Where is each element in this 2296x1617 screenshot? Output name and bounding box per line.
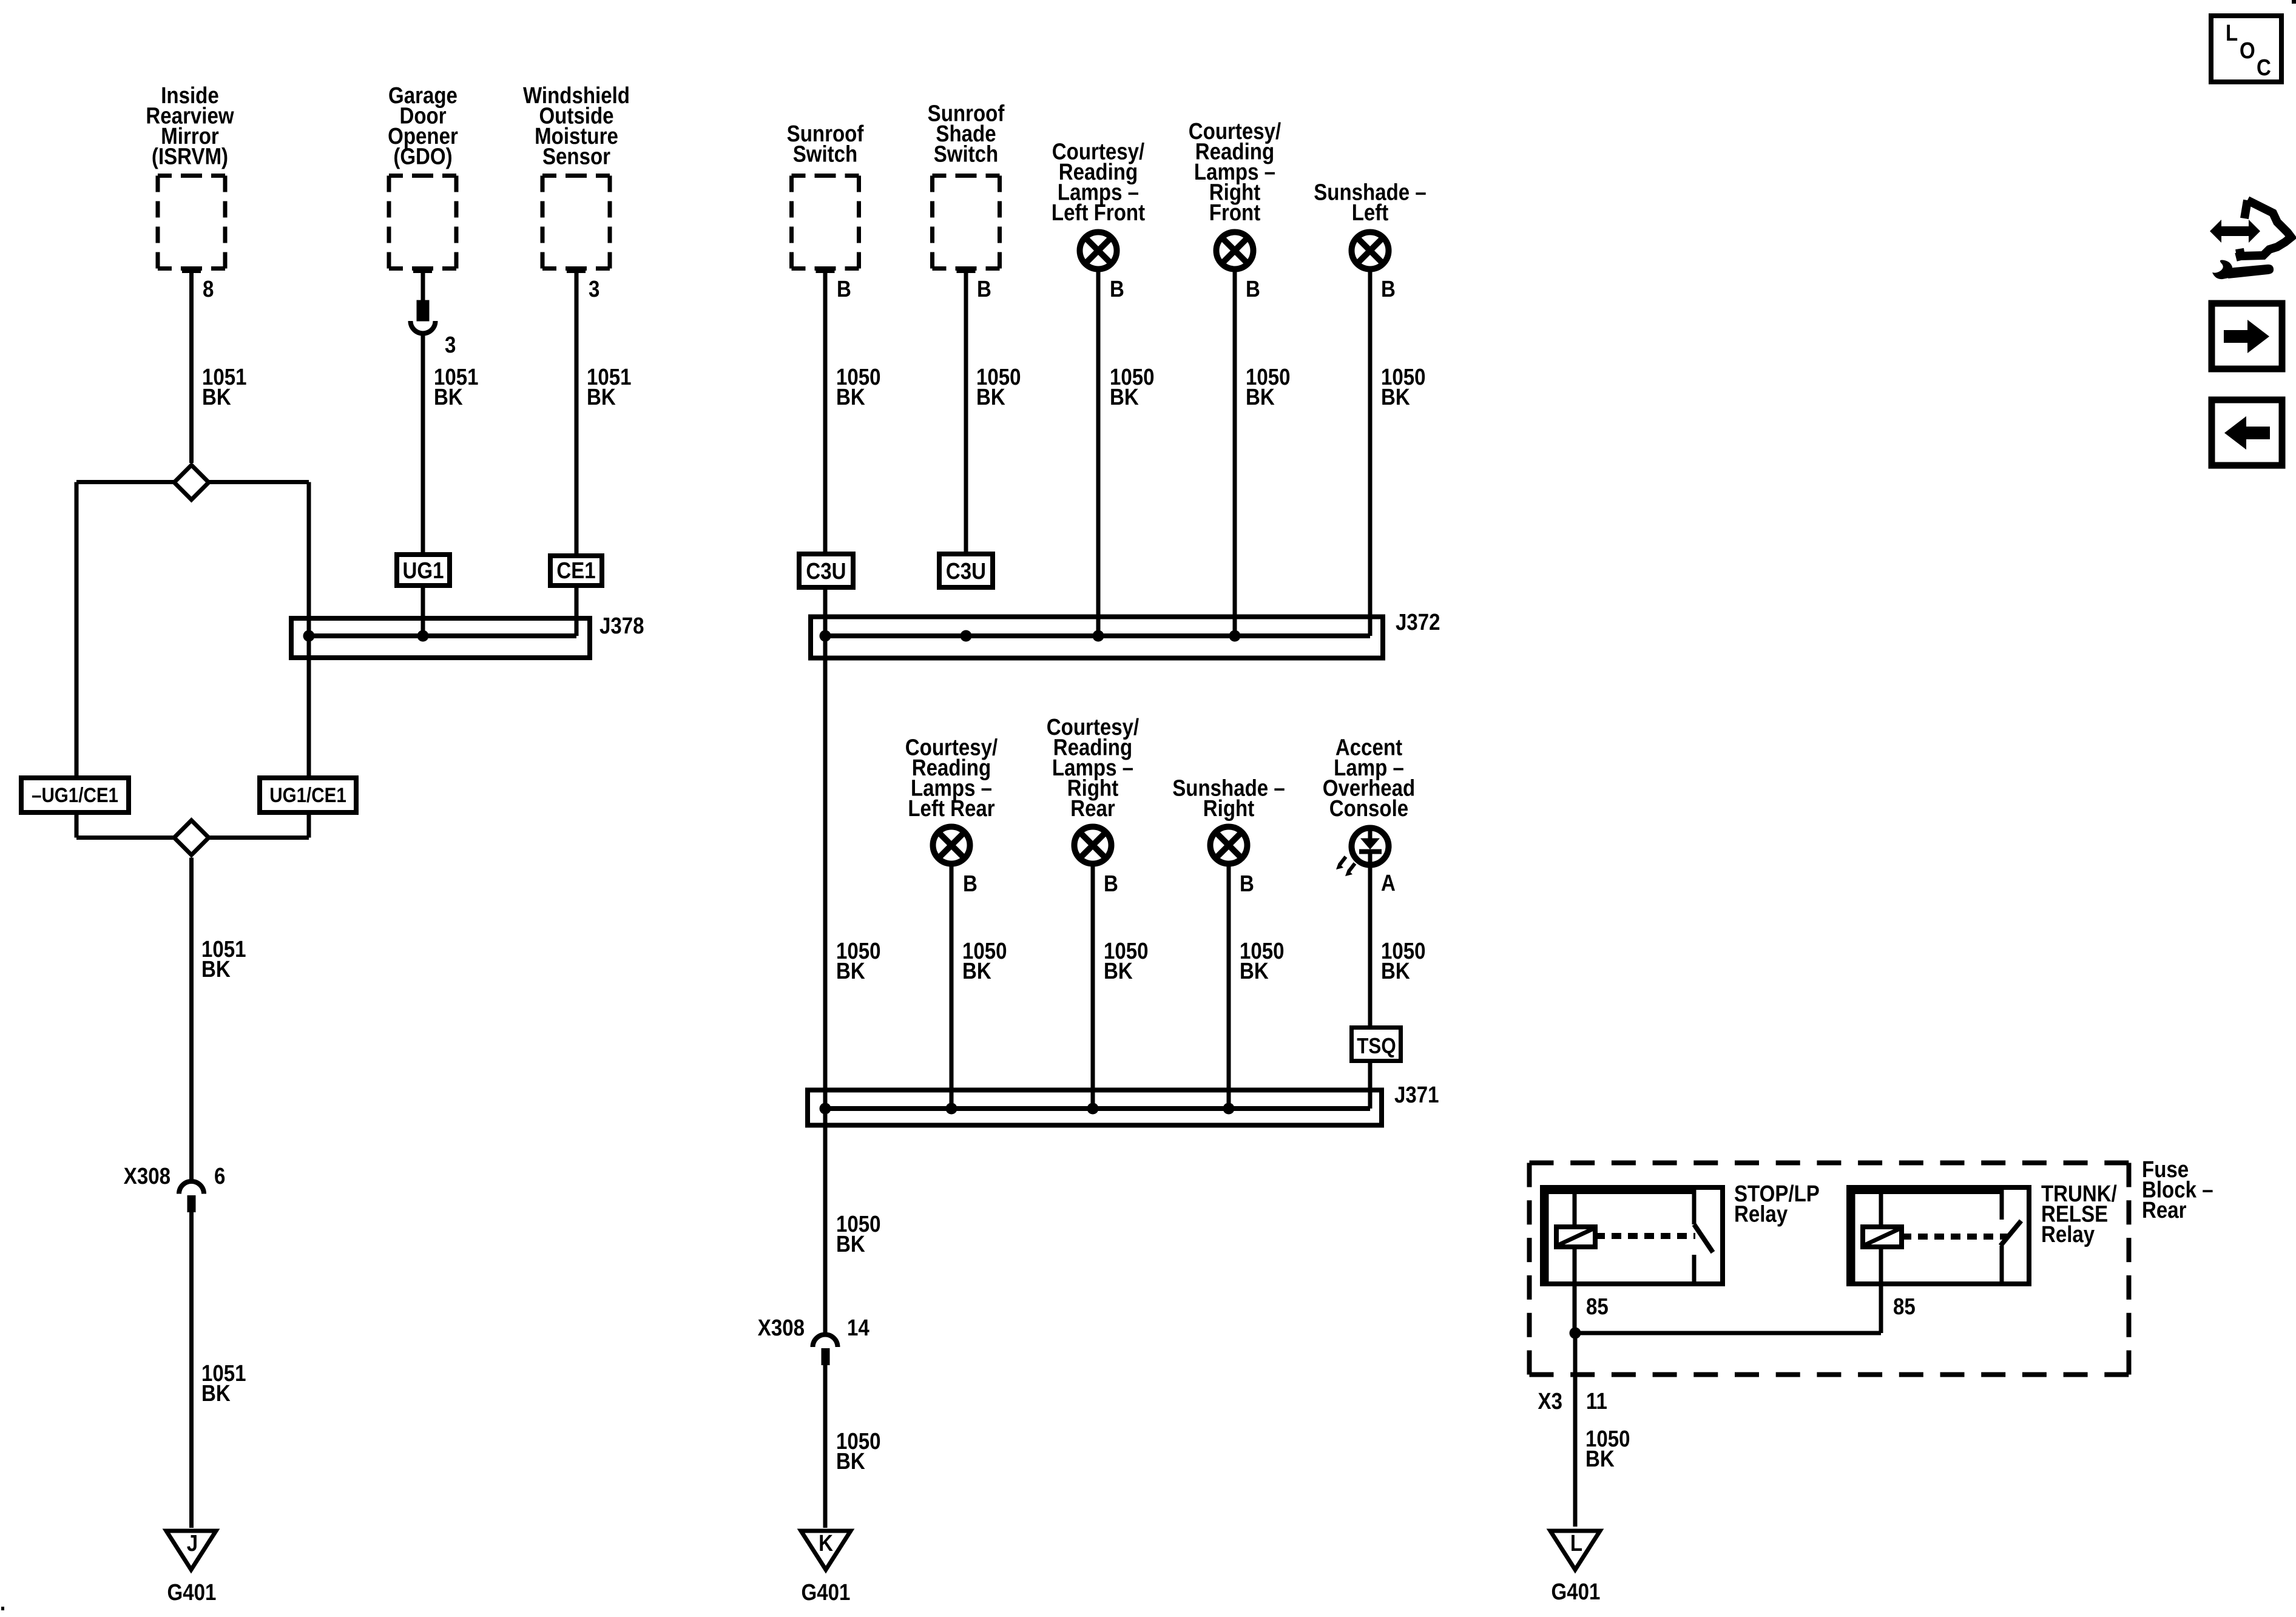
icon prev arrow box [2212,400,2282,465]
svg-text:A: A [1381,870,1396,896]
svg-text:UG1: UG1 [403,558,444,584]
connector X308 pin 14 [813,1335,838,1366]
wire left branch down [75,482,79,776]
node Accent Lamp Overhead Console label [1323,734,1415,821]
splice pack J372 [811,617,1383,658]
connector Sunroof Switch dashed box [792,176,859,271]
relay TRUNK/RELSE switch [2001,1190,2021,1282]
svg-text:Switch: Switch [793,141,858,167]
wire GDO to UG1 [421,336,425,552]
node TSQ box [1352,1028,1401,1061]
svg-text:BK: BK [836,1448,865,1474]
wire label 1050 BK [1110,364,1155,410]
node J378 label [599,613,644,639]
svg-text:CE1: CE1 [556,558,595,584]
pin A label [1381,870,1396,896]
node C3U box 1 [799,554,853,587]
wire X308 to ground K [823,1365,828,1528]
svg-text:85: 85 [1586,1294,1609,1320]
icon body outline with double arrow [2210,220,2260,243]
wire left branch lower [75,812,79,838]
svg-text:Right: Right [1203,795,1255,822]
pin B label [977,276,991,302]
svg-text:BK: BK [1110,384,1139,410]
wire label 1050 BK [1381,938,1426,984]
connector X308 pin 6 [179,1181,204,1212]
svg-text:UG1/CE1: UG1/CE1 [269,783,346,806]
svg-text:BK: BK [202,384,231,410]
wire label 1050 BK [836,1428,881,1474]
icon wrench [2212,260,2274,280]
lamp Courtesy/Reading Left Front [1080,232,1117,269]
svg-text:3: 3 [445,332,456,358]
lamp Courtesy/Reading Right Front [1217,232,1254,269]
wire label 1051 BK [587,364,632,410]
svg-text:3: 3 [589,276,599,302]
svg-text:Relay: Relay [1734,1201,1788,1227]
wire label 1050 BK [836,938,881,984]
wire label 1051 BK [434,364,479,410]
LED light arrows [1336,857,1355,876]
svg-text:8: 8 [203,276,214,302]
svg-text:BK: BK [1381,384,1410,410]
wire label 1050 BK [836,1211,881,1257]
LED Accent Lamp [1352,828,1389,865]
svg-text:BK: BK [201,956,231,982]
svg-text:B: B [1104,871,1118,897]
svg-text:X308: X308 [124,1163,171,1189]
svg-text:BK: BK [836,384,865,410]
wire Shade Switch to C3U [964,271,968,554]
pin 14 label [847,1315,869,1341]
wire label 1050 BK [976,364,1021,410]
svg-text:J378: J378 [599,613,644,639]
node TRUNK/RELSE Relay label [2041,1181,2117,1247]
svg-text:Rear: Rear [2142,1197,2187,1223]
lamp Courtesy/Reading Left Rear [933,827,970,864]
svg-text:G401: G401 [167,1579,217,1605]
svg-text:B: B [1381,276,1396,302]
svg-text:BK: BK [836,1231,865,1257]
relay TRUNK/RELSE coil [1863,1190,1902,1333]
node STOP/LP Relay label [1734,1181,1820,1227]
pin B label [1110,276,1124,302]
svg-text:B: B [1240,871,1254,897]
wire right branch lower [307,812,311,838]
connector inline GDO pin 3 [411,302,436,333]
svg-text:BK: BK [587,384,616,410]
node Courtesy Reading Lamps Left Front label [1052,138,1145,225]
wire label 1050 BK [1585,1426,1630,1472]
wire C3U1 through J372 and J371 to X308 [823,587,828,1332]
svg-text:L: L [1570,1530,1582,1556]
node Sunshade Right label [1172,775,1285,821]
svg-text:6: 6 [214,1163,225,1189]
relay STOP/LP box [1542,1187,1723,1284]
wire Sunshade Right to J371 [1227,866,1231,1109]
svg-text:–UG1/CE1: –UG1/CE1 [32,783,118,806]
splice pack J371 [808,1090,1382,1126]
connector ISRVM dashed box [158,176,225,271]
node Sunshade Left label [1314,179,1427,225]
wire lamp LF to J372 [1096,272,1101,636]
pin 85 label [1586,1294,1609,1320]
pin 85 label [1893,1294,1916,1320]
wire diamond to X308 [189,858,194,1180]
svg-text:G401: G401 [802,1579,851,1605]
svg-text:B: B [963,871,977,897]
node X308 label [758,1315,805,1341]
lamp Sunshade Left [1352,232,1389,269]
wire ISRVM to diamond [189,271,194,463]
lamp Courtesy/Reading Right Rear [1075,827,1112,864]
ground G401 L [1550,1531,1600,1570]
svg-text:BK: BK [962,958,991,984]
wire sensor to CE1 [575,271,579,554]
svg-text:B: B [1110,276,1124,302]
svg-text:C3U: C3U [806,558,846,584]
relay STOP/LP actuation dashed link [1595,1233,1695,1239]
svg-text:BK: BK [434,384,463,410]
node CE1 box [550,556,602,586]
svg-text:J371: J371 [1394,1082,1439,1108]
svg-text:O: O [2240,38,2255,64]
wire label 1050 BK [962,938,1007,984]
wire lamp RF to J372 [1233,272,1237,636]
relay TRUNK/RELSE actuation dashed link [1902,1234,2008,1240]
pin 6 label [214,1163,225,1189]
svg-text:Left Front: Left Front [1052,200,1145,226]
node Inside Rearview Mirror (ISRVM) label [146,83,234,169]
wire X308 to ground [189,1212,194,1528]
svg-text:(ISRVM): (ISRVM) [152,143,228,169]
node Courtesy Reading Lamps Right Rear label [1047,714,1140,822]
connector GDO dashed box [389,176,456,271]
svg-text:Switch: Switch [934,141,999,167]
pin 3 label [445,332,456,358]
pin B label [1240,871,1254,897]
wire CE1 to J378 [575,586,579,636]
connector sensor dashed box [542,176,610,271]
wire LED to TSQ [1368,868,1373,1028]
svg-text:C: C [2257,55,2271,81]
svg-text:X308: X308 [758,1315,805,1341]
wire label 1050 BK [1381,364,1426,410]
pin B label [837,276,851,302]
node Fuse Block Rear dashed box [1530,1163,2129,1375]
svg-text:B: B [1246,276,1260,302]
svg-text:J: J [187,1530,198,1556]
svg-text:BK: BK [1381,958,1410,984]
node UG1/CE1 box [260,778,356,812]
icon LOC box [2211,16,2281,82]
splice pack J378 [291,618,590,658]
svg-text:B: B [837,276,851,302]
wire right branch down [307,482,311,776]
svg-text:(GDO): (GDO) [393,143,452,169]
node splice diamond lower [76,820,309,855]
svg-text:K: K [819,1530,833,1556]
pin B label [963,871,977,897]
svg-text:Rear: Rear [1070,795,1115,822]
connector Shade Switch dashed box [933,176,1000,271]
wire junction to ground L [1573,1333,1578,1527]
wire label 1050 BK [1246,364,1291,410]
svg-text:G401: G401 [1551,1579,1601,1605]
svg-text:Console: Console [1329,795,1408,822]
pin B label [1104,871,1118,897]
svg-text:85: 85 [1893,1294,1916,1320]
wire relay junction [1570,1328,1882,1339]
relay TRUNK/RELSE box [1849,1187,2029,1284]
svg-text:BK: BK [1246,384,1275,410]
wire Sunshade Left to J372 [1368,272,1373,636]
wire label 1050 BK [1240,938,1285,984]
svg-text:BK: BK [836,958,865,984]
wire label 1051 BK [201,936,246,982]
node UG1 box [397,555,450,586]
relay STOP/LP coil [1556,1190,1595,1333]
wire UG1 to J378 [421,586,425,636]
node Courtesy Reading Lamps Left Rear label [905,734,998,821]
node J371 label [1394,1082,1439,1108]
wire Sunroof Switch to C3U [823,271,828,554]
svg-text:BK: BK [1585,1446,1615,1472]
svg-text:BK: BK [1240,958,1269,984]
pin B label [1246,276,1260,302]
wire label 1051 BK [202,364,247,410]
node Fuse Block Rear label [2142,1156,2213,1223]
pin 11 label [1586,1388,1607,1414]
svg-text:Left: Left [1352,200,1389,226]
svg-text:TSQ: TSQ [1357,1034,1396,1059]
wire label 1051 BK [201,1360,246,1406]
node C3U box 2 [939,554,993,587]
node Garage Door Opener (GDO) label [388,83,458,169]
wire lamp RR to J371 [1091,866,1095,1109]
wire lamp LR to J371 [950,866,954,1109]
lamp Sunshade Right [1210,827,1248,864]
wire TSQ to J371 [1368,1060,1373,1109]
svg-text:J372: J372 [1396,609,1440,635]
svg-text:BK: BK [976,384,1005,410]
node Courtesy Reading Lamps Right Front label [1189,118,1281,226]
svg-text:B: B [977,276,991,302]
icon next arrow box [2212,303,2282,369]
wire label 1050 BK [1104,938,1149,984]
svg-text:BK: BK [201,1380,231,1406]
node Sunroof Shade Switch label [928,100,1005,167]
relay STOP/LP switch [1694,1190,1713,1282]
ground G401 K [801,1531,851,1570]
svg-text:14: 14 [847,1315,869,1341]
pin B label [1381,276,1396,302]
node X308 label [124,1163,171,1189]
pin 8 label [203,276,214,302]
svg-text:Left Rear: Left Rear [908,795,994,822]
svg-text:C3U: C3U [946,558,986,584]
pin 3 label [589,276,599,302]
wire GDO stub [421,271,425,303]
node J372 label [1396,609,1440,635]
node X3 label [1538,1388,1562,1414]
node Sunroof Switch label [787,121,864,167]
svg-text:11: 11 [1586,1388,1607,1414]
svg-text:Front: Front [1209,200,1261,226]
svg-text:Sensor: Sensor [542,143,610,169]
wire label 1050 BK [836,364,881,410]
svg-text:Relay: Relay [2041,1221,2095,1247]
node Windshield Outside Moisture Sensor label [523,83,630,169]
ground G401 J [166,1531,216,1570]
node -UG1/CE1 box [21,778,129,812]
svg-text:BK: BK [1104,958,1133,984]
svg-text:L: L [2226,20,2238,46]
svg-text:X3: X3 [1538,1388,1562,1414]
node splice diamond upper [76,465,309,500]
